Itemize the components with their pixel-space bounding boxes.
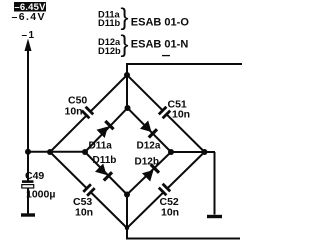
wire outer diamond bottom-left edge (50, 152, 127, 228)
wire outer diamond bottom-right edge (127, 152, 205, 228)
wire C49 lower lead (27, 188, 29, 214)
svg-text:C49: C49 (25, 170, 44, 182)
wire inner diamond bottom-left edge (85, 152, 127, 195)
wire outer diamond top-left edge (50, 75, 127, 152)
capacitor C49 electrolytic (22, 170, 56, 201)
svg-text:ESAB 01-N: ESAB 01-N (131, 39, 189, 51)
svg-text:ESAB 01-O: ESAB 01-O (131, 17, 190, 29)
node outer right vertex (202, 149, 208, 155)
diode D11b (93, 155, 117, 181)
wire top vertical stub (126, 75, 128, 108)
node inner right vertex (168, 149, 174, 155)
svg-text:10n: 10n (75, 207, 93, 219)
svg-text:}: } (121, 31, 129, 58)
node inner top vertex (125, 105, 131, 111)
svg-text:10n: 10n (65, 106, 83, 118)
capacitor C50 (65, 95, 94, 119)
wire inner diamond top-right edge (128, 108, 172, 152)
voltage label -6.45V (14, 2, 46, 13)
wire inner diamond top-left edge (85, 108, 128, 152)
arrow test point -1 (25, 39, 32, 52)
svg-text:D12a: D12a (137, 141, 161, 152)
ground (right) (207, 215, 222, 218)
svg-text:D11a: D11a (89, 141, 113, 152)
diode D12a (137, 121, 161, 152)
capacitor C51 (159, 99, 190, 121)
wire bottom vertical stub (126, 195, 128, 229)
svg-text:D12b: D12b (135, 157, 159, 168)
wire outer diamond top-right edge (127, 75, 205, 152)
node outer left vertex (47, 149, 53, 155)
node outer bottom vertex (125, 226, 129, 230)
svg-text:–1: –1 (22, 30, 36, 41)
ground (left, below C49) (21, 213, 35, 216)
node outer top vertex (124, 72, 130, 78)
svg-text:}: } (121, 4, 129, 31)
svg-text:D11b: D11b (98, 18, 121, 28)
wire bottom rail (127, 228, 240, 239)
diode D12b (135, 157, 160, 182)
node inner bottom vertex (124, 192, 130, 198)
wire right rail (171, 151, 215, 153)
wire top rail (127, 64, 242, 75)
diode D11a (89, 121, 114, 152)
node junction at left rail (25, 149, 31, 155)
wire inner diamond bottom-right edge (127, 152, 171, 195)
node inner left vertex (82, 149, 88, 155)
svg-text:10n: 10n (172, 109, 190, 121)
svg-text:D12b: D12b (98, 46, 121, 56)
svg-text:1000µ: 1000µ (26, 189, 55, 201)
svg-text:D11b: D11b (93, 155, 117, 166)
svg-text:–6.4V: –6.4V (12, 11, 46, 23)
wire left vertical (27, 46, 29, 181)
capacitor C53 (73, 184, 95, 218)
wire left rail (28, 151, 85, 153)
capacitor C52 (159, 184, 179, 219)
svg-text:10n: 10n (161, 207, 179, 219)
wire right drop (214, 152, 216, 215)
underline mark (162, 55, 170, 57)
